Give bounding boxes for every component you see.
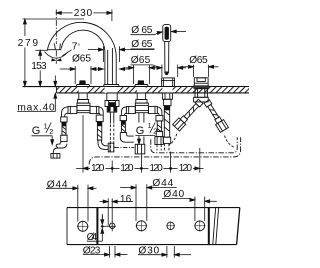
spout mounting nut xyxy=(105,101,119,107)
plan joint thick line left xyxy=(96,208,98,245)
valve V2 left port xyxy=(126,106,135,113)
phantom hose from H2 nut (dash-dot) xyxy=(114,146,134,148)
dim 7deg: angle arc xyxy=(44,52,68,59)
spout shank below deck xyxy=(107,93,117,101)
hose H2 bottom elbow turning right xyxy=(98,140,108,149)
dim 16: extension lines xyxy=(107,198,109,225)
deck left end edge xyxy=(56,87,58,93)
spout U1: white gap in deck for shank xyxy=(105,87,118,93)
spout second arrows row y=69 xyxy=(98,68,103,71)
valve V2 knurled handle stub (black) xyxy=(138,80,145,84)
svg-text:Ø 65: Ø 65 xyxy=(131,25,153,36)
plan deck break line right xyxy=(237,208,240,245)
valve V1 escutcheon xyxy=(76,85,90,87)
hose H3 bottom elbow to center xyxy=(120,133,134,143)
dim max.40: underline shelf xyxy=(17,111,55,113)
svg-text:16: 16 xyxy=(120,194,132,205)
deck top surface line xyxy=(23,86,250,88)
D4 pin hole dot xyxy=(101,226,103,228)
hose H4 dashed continuation xyxy=(156,145,158,151)
svg-text:1: 1 xyxy=(148,121,152,130)
svg-text:279: 279 xyxy=(18,38,39,49)
spout: inner shank lines in column xyxy=(107,50,109,85)
svg-text:120: 120 xyxy=(149,163,163,174)
spout: aerator internal lines xyxy=(54,43,55,49)
hose H2 end nut xyxy=(108,143,114,152)
valve V1 arrows row y=69 xyxy=(60,68,70,70)
dim D65 diverter: arrows row y=66.8 xyxy=(183,66,188,68)
spout: outlet mouth face xyxy=(47,49,61,51)
valve V2 center drop pipe xyxy=(138,113,140,123)
hose H2 top fitting xyxy=(96,115,103,122)
hose H3 dark sleeve xyxy=(121,121,125,125)
hole 1 (valve, D44) xyxy=(78,221,88,231)
dim D44 hole1: extension lines xyxy=(77,185,79,222)
valve V1 left elbow down xyxy=(62,107,69,117)
hole 5 (diverter, D40) xyxy=(195,221,205,231)
svg-text:120: 120 xyxy=(91,163,105,174)
svg-text:Ø44: Ø44 xyxy=(152,178,173,189)
hand shower head face (black) xyxy=(165,27,169,40)
svg-text:Ø65: Ø65 xyxy=(189,55,208,66)
valve V1 shank below deck xyxy=(79,93,87,100)
dim D40 hole5: shelf and arrows xyxy=(162,198,190,200)
shower hose fitting xyxy=(164,99,171,105)
hose H1 braided section xyxy=(62,122,66,135)
chain arrowheads at ends xyxy=(83,167,88,170)
item U5 (diverter) body above deck xyxy=(194,78,208,86)
hose H4 end nut xyxy=(155,137,163,145)
shower hose lower fitting xyxy=(163,137,170,143)
valve V2 right elbow down xyxy=(157,107,162,116)
label D65 shower head: leader shelf and arrow xyxy=(131,34,155,36)
svg-text:120: 120 xyxy=(120,163,134,174)
hose H2 dark sleeve xyxy=(97,122,101,127)
svg-text:153: 153 xyxy=(31,61,47,72)
svg-text:Ø44: Ø44 xyxy=(47,179,68,190)
valve V1 body xyxy=(77,103,90,113)
hand shower holder escutcheon xyxy=(162,78,175,87)
hole 3 (valve, D44) xyxy=(136,221,146,231)
label G1/2 #1: leader arrow down xyxy=(51,136,53,140)
hose H1 dark sleeve xyxy=(62,122,66,126)
svg-text:G: G xyxy=(32,125,41,137)
valve V1 left port xyxy=(68,106,77,113)
spout lower fitting with dark pads xyxy=(107,107,117,113)
svg-text:G: G xyxy=(136,125,145,137)
plan deck bottom edge xyxy=(67,244,237,246)
hose H3 fitting xyxy=(120,116,126,121)
dim 230: dimension line xyxy=(56,12,72,14)
svg-text:2: 2 xyxy=(153,127,157,136)
dim D4: converging vertical arrows xyxy=(101,216,103,220)
dim chain 120: dimension line xyxy=(83,167,90,169)
svg-text:Ø30: Ø30 xyxy=(138,246,159,257)
dim 7deg: arc arrowheads xyxy=(52,59,56,62)
G1/2 elbow end nut xyxy=(51,154,60,159)
hose H4 lower fitting xyxy=(156,131,162,136)
item U5 escutcheon band (dark) xyxy=(193,85,209,88)
hole 2 leader line xyxy=(101,225,116,227)
valve V2 arrows row y=67.8 xyxy=(125,67,128,69)
dim D4 pin hole: centerline dash-dot xyxy=(101,214,103,220)
dim D23: shelf and arrows xyxy=(83,254,105,256)
hose H1 bottom fitting xyxy=(61,135,67,141)
dim max.40: top arrow at deck top xyxy=(54,76,56,87)
dim chain 120x4: extension lines xyxy=(82,115,84,173)
svg-text:120: 120 xyxy=(179,163,193,174)
svg-text:Ø65: Ø65 xyxy=(131,55,151,66)
hose H4 fitting xyxy=(156,116,163,121)
diverter right angled hose xyxy=(203,99,229,132)
svg-text:Ø40: Ø40 xyxy=(163,189,184,200)
dim D44 hole3: extension lines xyxy=(135,184,137,221)
phantom hose loop, inner xyxy=(151,137,237,153)
valve V1 right elbow down xyxy=(99,107,103,115)
dim 279: arrowheads xyxy=(23,19,26,24)
dim 7deg: centerline of outlet (dash-dot) xyxy=(55,51,57,64)
svg-text:Ø23: Ø23 xyxy=(83,245,101,256)
dim D65 spout escutcheon: extension lines xyxy=(102,46,104,62)
deck bottom line xyxy=(57,92,250,94)
dim 230: arrowheads xyxy=(56,11,61,14)
dim 153: extension line at outlet xyxy=(35,49,48,51)
hand shower handle xyxy=(164,42,166,74)
label G1/2 #2: fraction slash xyxy=(150,122,155,132)
chain dots at intermediate points xyxy=(111,167,114,170)
label G1/2 #1: fraction slash xyxy=(46,123,51,133)
valve V1 deck gap xyxy=(79,87,88,93)
hand shower shank nut below deck xyxy=(162,93,172,99)
valve V1 knurled handle stub (black) xyxy=(79,80,86,84)
label G1/2 #2: leader arrow down xyxy=(138,136,140,140)
dim D40 hole5: extension lines xyxy=(194,197,196,222)
spout: inner arc of tube xyxy=(61,30,105,85)
hand shower head outline xyxy=(163,25,171,42)
diverter left angled hose xyxy=(194,97,209,102)
plan deck top edge xyxy=(67,207,240,209)
arrows row y=49.6 xyxy=(88,49,98,51)
dim 153: vertical dimension line xyxy=(39,50,41,60)
spout escutcheon on deck xyxy=(103,85,119,87)
shower hose dark sleeve xyxy=(164,106,169,111)
valve V2 mounting nut xyxy=(136,100,147,104)
label D65 stack3 shelf and arrow xyxy=(131,64,153,66)
hole 4 (shower holder, D30) xyxy=(167,222,174,229)
hose H3 braided body xyxy=(121,121,125,133)
dim D65 valve V1: extension lines xyxy=(74,66,76,84)
hand shower handle end detail xyxy=(165,72,168,75)
valve V2 left elbow down xyxy=(121,107,126,116)
shower hose dashed continuation xyxy=(164,144,166,151)
elbow to G1/2 connection (bottom left) xyxy=(53,144,67,154)
valve V2 right port xyxy=(148,106,157,113)
hand shower holder deck gap xyxy=(162,87,172,93)
dim D65 shower holder: extension lines xyxy=(161,65,163,78)
spout rod dashed continuation xyxy=(109,125,111,152)
dim D23 hole2: extension lines below xyxy=(109,246,111,258)
dim 230: left extension (outlet centerline, dash-dot) xyxy=(55,9,57,44)
plan joint slanted marks xyxy=(213,208,216,244)
dim D44 hole1: shelf and arrows xyxy=(46,187,73,189)
dim 279: vertical dimension line xyxy=(24,19,26,36)
valve V2 shank below deck xyxy=(137,93,145,100)
dim 230: right extension line xyxy=(111,9,113,21)
valve V2 deck gap xyxy=(137,87,146,93)
valve V2 escutcheon xyxy=(135,85,149,87)
deck hatched cross-section xyxy=(57,87,250,93)
svg-text:Ø 65: Ø 65 xyxy=(131,39,153,50)
hose H2 braided body xyxy=(97,122,101,141)
phantom hand-shower hose loop (dash-dot), outer xyxy=(89,137,240,164)
valve V2 body xyxy=(135,103,148,113)
valve V1 right port xyxy=(90,106,99,113)
dim 7deg: leader from label xyxy=(62,50,71,56)
svg-text:max.40: max.40 xyxy=(17,102,55,113)
label D65 stack2 shelf xyxy=(131,48,155,50)
shower holder arrows row y=67.8 xyxy=(157,66,162,69)
item U5 shank below deck xyxy=(195,89,207,98)
svg-text:Ø4: Ø4 xyxy=(87,232,98,243)
G1/2 union nut under valve V2 xyxy=(135,144,145,154)
svg-text:1: 1 xyxy=(44,121,48,130)
shower hose braided body xyxy=(164,106,169,138)
plan joint thick line right xyxy=(208,208,210,245)
hose H1 top fitting xyxy=(61,117,67,122)
dim 153: arrowheads xyxy=(39,50,42,55)
hole 2 (spout, D23) xyxy=(110,223,115,228)
dim max.40: bottom arrow at deck underside xyxy=(54,93,56,111)
plan deck left edge xyxy=(66,208,68,245)
svg-text:230: 230 xyxy=(74,8,93,19)
hose H4 braided body xyxy=(157,121,161,131)
dim D30 hole4: extension lines below xyxy=(166,246,168,258)
dim D44 hole3: arrows and shelf xyxy=(120,187,131,189)
dim 16: arrows xyxy=(100,201,104,203)
dim D30: shelf and arrows xyxy=(138,254,162,256)
dim D4: shelf xyxy=(87,240,103,242)
valve V1 mounting nut xyxy=(77,100,88,104)
dim D65 valve V2: extension lines xyxy=(133,65,135,85)
spout: outer arc of tube xyxy=(47,22,116,84)
svg-text:2: 2 xyxy=(49,127,53,136)
svg-text:Ø65: Ø65 xyxy=(72,54,91,65)
spout threaded rod xyxy=(109,112,111,123)
dim 230: extension line over spout top xyxy=(23,18,84,20)
